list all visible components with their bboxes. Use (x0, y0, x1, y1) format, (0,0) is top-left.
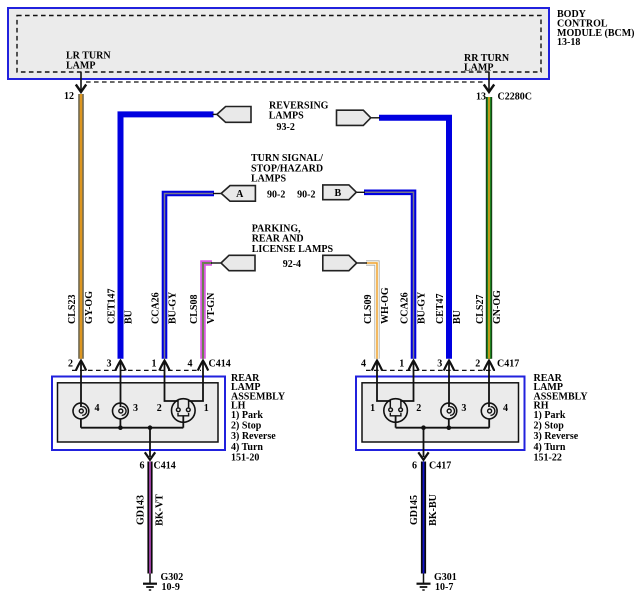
svg-text:3: 3 (437, 358, 442, 369)
wire CET47 BU right (379, 118, 449, 359)
svg-text:151-20: 151-20 (231, 453, 259, 464)
svg-text:CLS23: CLS23 (67, 295, 78, 324)
wire CLS23 GY-OG (78, 94, 84, 359)
svg-text:LAMPS: LAMPS (269, 111, 304, 122)
svg-text:92-4: 92-4 (283, 259, 301, 270)
BCM pin 12 lead wire (76, 72, 86, 92)
wire CCA26 BU-GY left (165, 194, 215, 359)
svg-text:GY-OG: GY-OG (84, 291, 95, 324)
connector flag REVERSING left (213, 107, 252, 123)
svg-text:CLS09: CLS09 (363, 295, 374, 324)
svg-text:2) Stop: 2) Stop (231, 421, 262, 432)
pin 6 exit lead LH (145, 428, 155, 460)
pin 6 exit lead RH (418, 428, 428, 460)
svg-text:3: 3 (461, 403, 466, 414)
svg-text:4) Turn: 4) Turn (534, 442, 566, 453)
lamp bulb 4 RH (481, 403, 497, 419)
BCM module box U1 (8, 8, 549, 79)
dual filament bulb RH (384, 399, 408, 428)
wire GD145 BK-BU (421, 462, 426, 574)
svg-text:2: 2 (68, 358, 73, 369)
svg-text:LAMP: LAMP (464, 63, 493, 74)
svg-text:13-18: 13-18 (557, 37, 580, 48)
connector arrow pin 4 right (372, 361, 382, 371)
svg-text:90-2: 90-2 (297, 189, 315, 200)
svg-text:2: 2 (416, 403, 421, 414)
label RR TURN LAMP (464, 53, 510, 74)
connector flag PARKING left (211, 255, 255, 270)
connector arrow pin 3 left (115, 361, 125, 371)
svg-text:1: 1 (204, 403, 209, 414)
wire CLS08 VT-GN (203, 263, 212, 359)
wire GD143 BK-VT (147, 462, 152, 574)
connector flag B (323, 185, 365, 200)
wire into lamp 4 RH (488, 361, 490, 407)
svg-text:151-22: 151-22 (534, 453, 562, 464)
wire pin1 to dual bulb LH (165, 361, 179, 401)
connector C414 dashed line (72, 369, 201, 371)
svg-text:GD145: GD145 (409, 495, 420, 525)
label PARKING, REAR AND LICENSE LAMPS 92-4 (252, 223, 334, 270)
svg-text:6: 6 (412, 461, 417, 472)
svg-text:1: 1 (370, 403, 375, 414)
svg-text:2: 2 (475, 358, 480, 369)
svg-text:WH-OG: WH-OG (380, 287, 391, 324)
svg-text:BU-GY: BU-GY (417, 291, 428, 324)
connector flag REVERSING right (337, 110, 381, 125)
svg-text:CLS27: CLS27 (475, 295, 486, 324)
label REAR LAMP ASSEMBLY RH list (534, 373, 589, 464)
svg-text:A: A (236, 189, 244, 200)
svg-text:6: 6 (140, 461, 145, 472)
svg-text:C2280C: C2280C (498, 92, 532, 103)
connector arrow pin 2 right (484, 361, 494, 371)
lamp ground bus RH (396, 419, 490, 428)
svg-text:CCA26: CCA26 (151, 292, 162, 324)
svg-text:3) Reverse: 3) Reverse (231, 431, 276, 442)
svg-text:12: 12 (64, 91, 74, 102)
svg-text:93-2: 93-2 (277, 122, 295, 133)
svg-text:1) Park: 1) Park (534, 410, 566, 421)
svg-text:B: B (334, 188, 341, 199)
svg-text:C414: C414 (154, 461, 176, 472)
svg-text:C414: C414 (209, 358, 231, 369)
svg-text:10-7: 10-7 (435, 582, 453, 593)
svg-text:BK-BU: BK-BU (428, 494, 439, 526)
label REAR LAMP ASSEMBLY LH list (231, 373, 286, 464)
svg-text:2) Stop: 2) Stop (534, 421, 565, 432)
svg-text:LAMPS: LAMPS (251, 174, 286, 185)
lamp ground bus LH (81, 419, 183, 428)
label BODY CONTROL MODULE (BCM) 13-18 (557, 9, 635, 48)
svg-text:C417: C417 (497, 358, 519, 369)
label G301 10-7 (434, 572, 457, 593)
svg-text:CCA26: CCA26 (400, 292, 411, 324)
rear lamp assembly RH box (356, 377, 525, 451)
connector arrow pin 2 left (76, 361, 86, 371)
label LR TURN LAMP (66, 51, 111, 72)
connector arrow pin 3 right (444, 361, 454, 371)
svg-text:4: 4 (95, 403, 100, 414)
svg-text:1) Park: 1) Park (231, 410, 263, 421)
connector arrow pin 1 left (159, 361, 169, 371)
svg-text:1: 1 (152, 358, 157, 369)
svg-text:BU-GY: BU-GY (168, 291, 179, 324)
junction dot RH exit (421, 425, 426, 430)
svg-text:GD143: GD143 (136, 495, 147, 525)
wire pin4 to dual bulb RH (377, 361, 390, 401)
label G302 10-9 (161, 572, 184, 593)
wire CET147 BU left (121, 114, 214, 358)
ground G302 (143, 574, 157, 591)
wire pin1 to dual bulb RH (401, 361, 414, 401)
svg-text:BU: BU (452, 310, 463, 324)
svg-text:BU: BU (124, 310, 135, 324)
svg-text:3: 3 (107, 358, 112, 369)
connector arrow pin 4 left (198, 361, 208, 371)
wire CLS09 WH-OG (366, 263, 377, 359)
svg-text:90-2: 90-2 (267, 189, 285, 200)
junction dot LH lamp3 (118, 425, 123, 430)
wire CLS27 GN-OG (486, 97, 492, 359)
connector arrow pin 1 right (408, 361, 418, 371)
svg-text:LAMP: LAMP (66, 60, 95, 71)
wire CCA26 BU-GY right (364, 192, 414, 358)
wire into lamp 3 RH (448, 361, 450, 407)
wire into lamp 3 LH (120, 361, 122, 407)
lamp bulb 3 LH (113, 403, 129, 419)
lamp bulb 3 RH (441, 403, 457, 419)
label TURN SIGNAL/STOP/HAZARD LAMPS (251, 153, 323, 185)
connector C417 dashed line (366, 369, 495, 371)
dual filament bulb LH (172, 399, 196, 428)
connector flag PARKING right (323, 255, 367, 270)
junction dot LH exit (148, 425, 153, 430)
svg-text:4: 4 (361, 358, 366, 369)
svg-text:3: 3 (133, 403, 138, 414)
lamp bulb 4 LH (73, 403, 89, 419)
svg-text:CLS08: CLS08 (189, 295, 200, 324)
svg-text:10-9: 10-9 (162, 582, 180, 593)
svg-text:VT-GN: VT-GN (206, 292, 217, 324)
svg-text:2: 2 (157, 403, 162, 414)
junction dot RH lamp3 (447, 425, 452, 430)
svg-text:1: 1 (399, 358, 404, 369)
svg-text:BK-VT: BK-VT (154, 494, 165, 526)
rear lamp assembly LH box (52, 377, 225, 451)
svg-text:CET47: CET47 (435, 293, 446, 324)
BCM pin 13 lead wire (484, 72, 494, 92)
svg-text:4) Turn: 4) Turn (231, 442, 263, 453)
svg-text:4: 4 (188, 358, 193, 369)
connector C2280C dashed line (86, 81, 484, 83)
wire pin4 to dual bulb LH (189, 361, 203, 401)
label 90-2 90-2 (267, 189, 315, 200)
svg-text:CET147: CET147 (107, 288, 118, 324)
svg-text:GN-OG: GN-OG (492, 290, 503, 324)
ground G301 (417, 574, 431, 591)
svg-text:LICENSE LAMPS: LICENSE LAMPS (252, 244, 334, 255)
svg-text:C417: C417 (429, 461, 451, 472)
wire into lamp 4 LH (80, 361, 82, 407)
label REVERSING LAMPS 93-2 (269, 100, 329, 133)
connector flag A (213, 186, 255, 202)
svg-text:13: 13 (476, 92, 486, 103)
svg-text:4: 4 (503, 403, 508, 414)
svg-text:3) Reverse: 3) Reverse (534, 431, 579, 442)
